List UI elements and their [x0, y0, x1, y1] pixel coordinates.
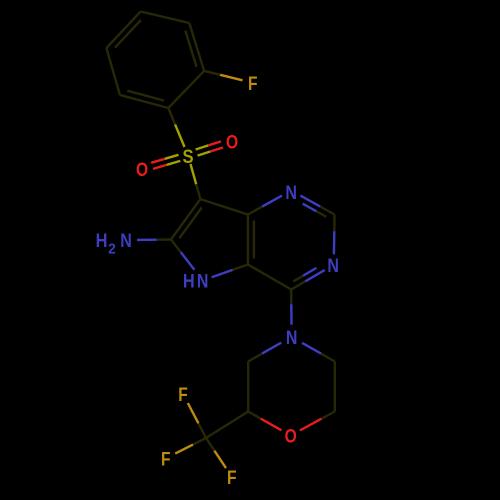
- bond benzene C4-C5 double: [106, 12, 140, 49]
- bond morpholine C-CF3: [206, 412, 248, 439]
- bond N1=C2 double: [300, 196, 320, 207]
- bond morpholine CH2-CH2 right: [334, 362, 336, 412]
- bond morpholine O-CH2 right: [300, 419, 322, 431]
- svg-text:N: N: [285, 181, 297, 203]
- svg-text:F: F: [227, 466, 237, 488]
- svg-text:H: H: [183, 270, 195, 292]
- bond benzene C3-C4: [141, 12, 190, 24]
- bond C7-C7a: [200, 199, 248, 214]
- svg-text:F: F: [248, 72, 258, 94]
- svg-text:N: N: [197, 270, 209, 292]
- svg-text:N: N: [327, 255, 339, 277]
- svg-text:N: N: [120, 230, 132, 252]
- svg-text:F: F: [178, 383, 188, 405]
- svg-text:2: 2: [108, 240, 116, 256]
- svg-text:F: F: [161, 448, 171, 470]
- bond benzene C2-C3 double: [189, 23, 204, 71]
- bond CF3 C-F bottom: [206, 438, 214, 451]
- bond N5-C6: [181, 252, 195, 270]
- bond benzene C6-C1 double: [120, 95, 168, 108]
- bond benzene C5-C6: [106, 48, 120, 95]
- bond CF3 C-F left: [193, 438, 206, 445]
- bond aryl C-F: [204, 71, 220, 75]
- bond fusion C7a=C4a double: [247, 215, 249, 265]
- svg-text:H: H: [96, 230, 108, 252]
- bond morpholine CH-O: [248, 412, 261, 419]
- svg-text:O: O: [285, 425, 297, 447]
- double bond S=O right: [198, 152, 211, 156]
- bond morpholine CH2-CH left: [247, 362, 249, 412]
- bond C2-N3: [333, 215, 336, 232]
- bond C6-NH2: [157, 238, 171, 241]
- bond C7a-N1: [248, 207, 262, 215]
- bond S-C7: [191, 164, 197, 184]
- bond aryl C1-S: [168, 108, 175, 124]
- bond C4-N morpholine: [290, 290, 292, 305]
- bond N3=C4 double: [305, 270, 324, 281]
- bond C6=C7 double: [171, 199, 200, 239]
- bond morpholine CH2-N: [321, 354, 335, 362]
- bond benzene C1-C2: [168, 71, 204, 108]
- svg-text:O: O: [136, 158, 148, 180]
- bond CF3 C-F top: [198, 423, 206, 438]
- bond C4a-N5: [233, 265, 248, 270]
- svg-text:O: O: [226, 131, 238, 153]
- svg-text:N: N: [286, 326, 298, 348]
- double bond S=O left: [165, 155, 179, 159]
- svg-text:S: S: [182, 146, 193, 168]
- bond morpholine N-CH2 left: [262, 343, 281, 354]
- bond C4-C4a: [248, 265, 291, 290]
